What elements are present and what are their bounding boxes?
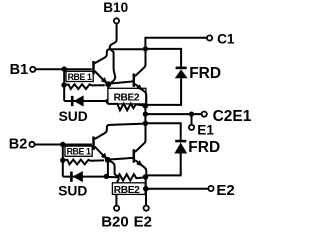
diode FRD1 (top free-wheel) — [145, 49, 187, 105]
terminal E1 — [189, 114, 214, 138]
wire Q4 base node vertical — [107, 160, 109, 176]
node C2E1 bus junction — [143, 111, 148, 116]
wire bus to E2 terminal (right) — [146, 188, 208, 190]
svg-text:RBE 1: RBE 1 — [67, 147, 91, 157]
svg-text:E1: E1 — [197, 123, 214, 138]
svg-text:FRD: FRD — [189, 65, 221, 82]
svg-text:RBE2: RBE2 — [114, 185, 140, 196]
wire Q2 base node vertical — [107, 84, 109, 104]
terminal B1 — [10, 62, 36, 78]
node Q4 emitter / E2 bus junction — [143, 174, 149, 180]
node B1-bus junction — [61, 66, 66, 71]
wire E2 bus — [145, 177, 147, 189]
wire B1 bus down — [63, 69, 65, 101]
wire B20 up with hop over RBE2 row — [108, 161, 119, 206]
wire Q3 collector run to bus — [107, 124, 145, 128]
node SUD-RBE2 junction (top) — [105, 99, 110, 104]
label RBE2 (bottom) box — [112, 183, 145, 196]
wire B2 bus down — [62, 145, 64, 177]
resistor RBE1 (bottom) zigzag — [63, 160, 104, 165]
wire Q1 collector run to bus — [107, 49, 145, 52]
svg-text:B1: B1 — [10, 62, 29, 78]
node FRD2 cathode bus junction — [143, 121, 148, 126]
terminal E2 (bottom) — [134, 189, 152, 231]
svg-text:B10: B10 — [103, 0, 128, 15]
node Q1 emitter / Q2 base junction — [105, 81, 111, 87]
wire to Q4 base — [108, 158, 133, 160]
transistor Q4 (bottom output) — [134, 123, 147, 175]
wire to Q2 base — [108, 81, 133, 83]
wire bus to C2E1 terminal — [145, 113, 201, 115]
transistor Q1 (top driver) — [94, 50, 108, 84]
svg-text:E2: E2 — [134, 213, 152, 228]
terminal B2 — [9, 136, 35, 152]
wire B2 to Q3 base — [35, 144, 92, 146]
terminal B10 — [103, 0, 128, 23]
terminal C2E1 — [202, 108, 252, 125]
terminal C1 — [207, 31, 235, 46]
node RBE1 left junction — [61, 82, 66, 87]
label RBE1 (top) — [66, 71, 93, 82]
svg-text:B2: B2 — [9, 136, 28, 152]
svg-text:RBE2: RBE2 — [114, 93, 140, 104]
node Q3 emitter / Q4 base junction — [105, 157, 111, 163]
svg-text:SUD: SUD — [58, 183, 87, 198]
resistor RBE2 (top) with label box — [108, 88, 146, 110]
transistor Q2 (top output) — [134, 49, 147, 104]
terminal E2 (right) — [208, 182, 234, 199]
terminal B20 — [101, 206, 129, 231]
label RBE1 (bottom) — [65, 146, 92, 157]
svg-text:SUD: SUD — [59, 109, 88, 124]
svg-text:E2: E2 — [216, 182, 234, 199]
transistor Q3 (bottom driver) — [94, 126, 108, 160]
resistor RBE1 (top) zigzag — [64, 84, 105, 89]
node RBE1 (bottom) left junction — [60, 158, 65, 163]
wire B10 down with hop over collector run — [109, 24, 117, 84]
node Q2 emitter / E1C2 bus junction — [143, 103, 149, 109]
diode SUD (top) — [64, 95, 107, 106]
wire B1 to Q1 base — [36, 68, 92, 70]
svg-text:C2E1: C2E1 — [213, 108, 252, 125]
svg-text:B20: B20 — [101, 213, 129, 228]
node SUD-RBE2 junction (bottom) — [104, 174, 109, 179]
diode SUD (bottom) — [63, 171, 106, 182]
resistor RBE2 (bottom) zigzag — [106, 174, 145, 180]
svg-text:C1: C1 — [217, 31, 235, 46]
svg-text:FRD: FRD — [188, 139, 220, 156]
wire bus to C1 terminal — [145, 38, 206, 49]
diode FRD2 (bottom free-wheel) — [145, 123, 187, 175]
node E1 tee junction — [189, 112, 194, 117]
wire E1C2 bus — [144, 106, 146, 123]
svg-text:RBE 1: RBE 1 — [68, 72, 92, 82]
node E2 row junction — [143, 186, 149, 192]
node collector bus junction (top) — [143, 46, 148, 51]
node B2-bus junction — [60, 142, 65, 147]
